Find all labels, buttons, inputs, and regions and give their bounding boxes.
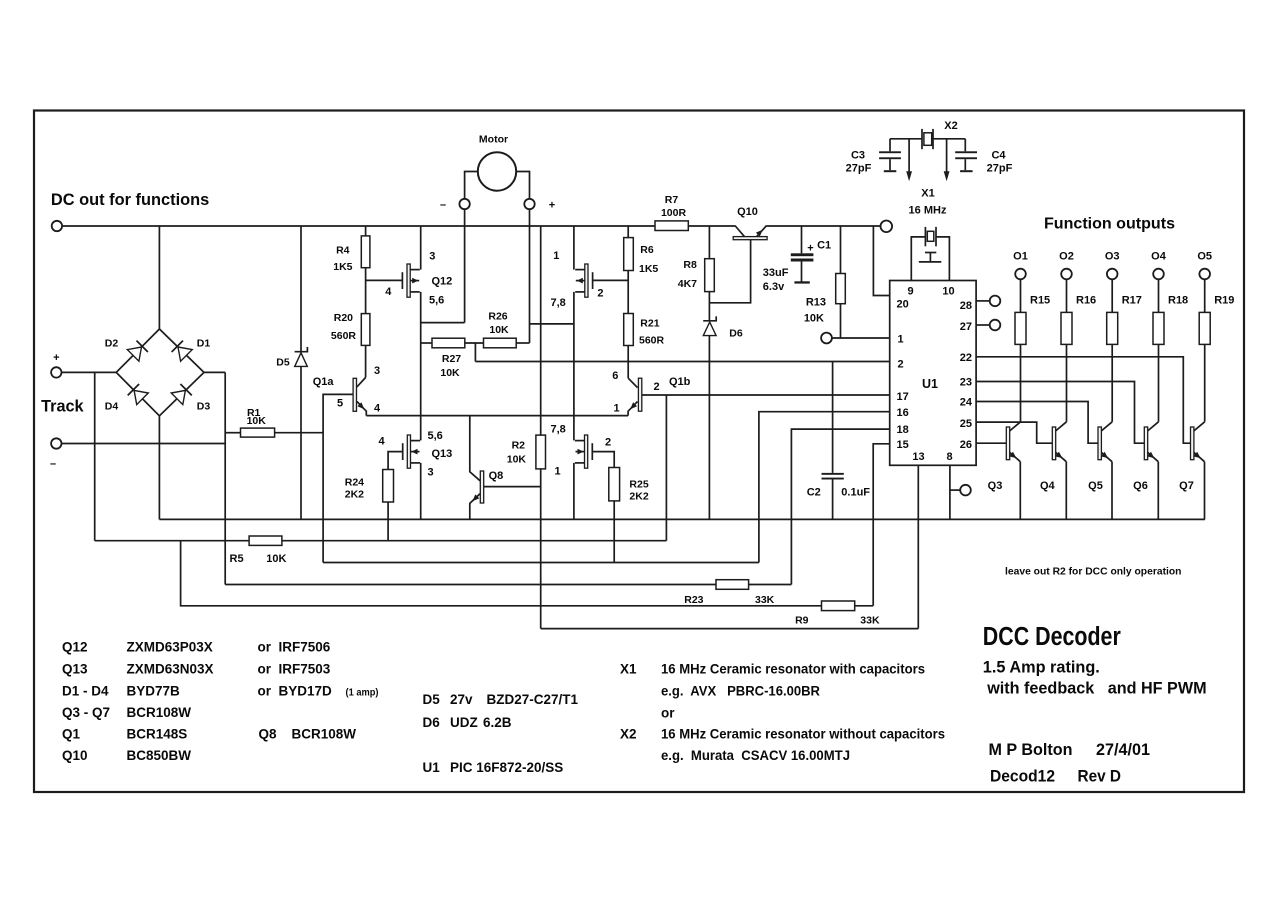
svg-text:10K: 10K bbox=[440, 367, 460, 379]
svg-text:2K2: 2K2 bbox=[345, 489, 364, 501]
wire Q12b drain up bbox=[573, 226, 575, 270]
svg-text:3: 3 bbox=[428, 466, 434, 478]
svg-text:Decod12: Decod12 bbox=[990, 767, 1055, 785]
wire X2 right lead bbox=[933, 138, 965, 140]
wire Q13 gate lead bbox=[388, 452, 403, 470]
svg-text:7,8: 7,8 bbox=[551, 297, 566, 309]
svg-text:22: 22 bbox=[960, 352, 972, 364]
resistor R23 bbox=[716, 580, 749, 590]
svg-text:D5: D5 bbox=[276, 357, 290, 369]
wire bridge top drop bbox=[158, 226, 160, 329]
wire pin1 bbox=[832, 337, 890, 339]
wire pin13 to R2 rail bbox=[541, 628, 919, 630]
svg-text:X2: X2 bbox=[620, 727, 637, 742]
mosfet Q12 bbox=[401, 272, 403, 289]
wire R5 rail left bbox=[95, 540, 249, 542]
wire R4 R20 bbox=[365, 268, 367, 314]
svg-text:16 MHz Ceramic resonator with: 16 MHz Ceramic resonator with capacitors bbox=[661, 662, 925, 677]
svg-text:16 MHz: 16 MHz bbox=[909, 204, 947, 216]
terminal motor minus bbox=[459, 199, 469, 209]
capacitor C4 bbox=[964, 139, 966, 152]
svg-text:Q1a: Q1a bbox=[313, 376, 335, 388]
svg-text:or IRF7503: or IRF7503 bbox=[258, 662, 331, 677]
svg-text:27pF: 27pF bbox=[987, 163, 1013, 175]
terminal pin28 bbox=[990, 296, 1001, 307]
svg-text:R17: R17 bbox=[1122, 294, 1142, 306]
terminal bus right bbox=[881, 221, 893, 233]
wire track plus down bbox=[94, 372, 96, 540]
border frame bbox=[34, 111, 1244, 793]
svg-text:100R: 100R bbox=[661, 207, 687, 219]
wire emitter rail bbox=[366, 415, 628, 417]
wire rail4 right bbox=[749, 584, 792, 586]
wire X2 left lead bbox=[890, 138, 922, 140]
wire track plus bbox=[62, 371, 117, 373]
svg-text:10K: 10K bbox=[804, 312, 824, 324]
svg-text:Q8: Q8 bbox=[259, 727, 278, 742]
wire ground bus bbox=[159, 518, 1205, 520]
svg-text:1K5: 1K5 bbox=[639, 263, 658, 275]
svg-text:23: 23 bbox=[960, 377, 972, 389]
svg-text:R9: R9 bbox=[795, 614, 809, 626]
svg-text:Q10: Q10 bbox=[737, 206, 758, 218]
svg-text:D6: D6 bbox=[423, 715, 441, 730]
svg-text:26: 26 bbox=[960, 439, 972, 451]
wire R27 R26 bbox=[465, 342, 484, 344]
wire bridge right bbox=[204, 371, 225, 373]
transistor Q3 bbox=[1006, 427, 1009, 460]
zener diode D6 bbox=[703, 322, 716, 336]
svg-text:UDZ: UDZ bbox=[450, 715, 478, 730]
wire Q13b source down bbox=[573, 463, 575, 520]
wire R21 bottom bbox=[627, 346, 629, 379]
wire X1 right lead bbox=[936, 237, 949, 281]
svg-text:25: 25 bbox=[960, 418, 972, 430]
terminal pin27 bbox=[990, 320, 1001, 331]
svg-text:Rev D: Rev D bbox=[1078, 767, 1122, 785]
svg-text:6.3v: 6.3v bbox=[763, 281, 785, 293]
wire R8 top bbox=[708, 226, 710, 259]
wire motor minus link bbox=[421, 322, 465, 324]
wire rail4 left bbox=[225, 584, 716, 586]
resistor R1 bbox=[241, 428, 275, 437]
wire Q12 gate lead bbox=[366, 279, 403, 281]
svg-text:BZD27-C27/T1: BZD27-C27/T1 bbox=[487, 692, 579, 707]
wire pin17 tap down bbox=[665, 395, 667, 541]
svg-text:X1: X1 bbox=[620, 662, 637, 677]
resistor R5 bbox=[249, 536, 282, 545]
wire R16 bottom bbox=[1066, 344, 1068, 421]
svg-text:with feedback and HF PWM: with feedback and HF PWM bbox=[986, 680, 1206, 698]
svg-text:1: 1 bbox=[614, 403, 620, 415]
svg-text:BYD77B: BYD77B bbox=[127, 684, 181, 699]
wire Q12b source down bbox=[573, 292, 575, 441]
svg-text:10K: 10K bbox=[507, 453, 527, 465]
svg-text:R23: R23 bbox=[684, 594, 703, 606]
svg-text:BCR148S: BCR148S bbox=[127, 727, 188, 742]
wire Q12b gate lead bbox=[593, 279, 629, 281]
wire pin24 line bbox=[976, 402, 1100, 444]
svg-text:D4: D4 bbox=[105, 401, 119, 413]
svg-text:R20: R20 bbox=[334, 312, 353, 324]
svg-text:5: 5 bbox=[337, 397, 343, 409]
wire Q1b base / pin17 bbox=[642, 394, 890, 396]
svg-text:D3: D3 bbox=[197, 401, 211, 413]
svg-text:2: 2 bbox=[654, 381, 660, 393]
wire Q10 base bbox=[709, 240, 750, 303]
resistor R6 bbox=[624, 238, 634, 271]
resistor R24 bbox=[383, 470, 394, 503]
wire pin18 line bbox=[791, 429, 889, 584]
wire Q1a base column bbox=[323, 394, 353, 562]
wire R18 bottom bbox=[1158, 344, 1160, 421]
svg-text:10: 10 bbox=[942, 286, 954, 298]
svg-text:+: + bbox=[53, 352, 59, 364]
svg-text:13: 13 bbox=[912, 451, 924, 463]
wire X1 left lead bbox=[911, 237, 925, 281]
wire R4 top bbox=[365, 226, 367, 236]
transistor Q1a bbox=[353, 378, 356, 411]
svg-text:BCR108W: BCR108W bbox=[127, 705, 192, 720]
wire R20 bottom bbox=[365, 345, 367, 377]
svg-text:2: 2 bbox=[605, 436, 611, 448]
capacitor C1 bbox=[791, 253, 814, 256]
svg-text:O5: O5 bbox=[1197, 251, 1212, 263]
wire Q12 drain up bbox=[420, 226, 422, 270]
resistor R9 bbox=[822, 601, 855, 611]
svg-text:or IRF7506: or IRF7506 bbox=[258, 640, 331, 655]
wire rail3 bbox=[323, 562, 759, 564]
svg-text:Q13: Q13 bbox=[432, 448, 453, 460]
svg-text:Track: Track bbox=[41, 397, 84, 416]
wire Q12 source down bbox=[420, 292, 422, 441]
wire motor right bbox=[516, 172, 530, 200]
resistor R4 bbox=[361, 236, 370, 268]
resistor R19 bbox=[1204, 279, 1206, 312]
svg-text:R6: R6 bbox=[640, 244, 654, 256]
svg-text:or: or bbox=[661, 706, 675, 721]
wire Q7 emitter bbox=[1204, 462, 1206, 520]
svg-text:1: 1 bbox=[898, 334, 904, 346]
svg-text:C4: C4 bbox=[991, 149, 1006, 161]
svg-text:DCC Decoder: DCC Decoder bbox=[983, 623, 1121, 651]
svg-text:ZXMD63N03X: ZXMD63N03X bbox=[127, 662, 214, 677]
svg-text:Q5: Q5 bbox=[1088, 480, 1103, 492]
svg-text:R26: R26 bbox=[488, 310, 507, 322]
svg-text:20: 20 bbox=[897, 299, 909, 311]
svg-text:27: 27 bbox=[960, 321, 972, 333]
wire Q8 base bbox=[484, 486, 541, 488]
wire pin8 riser bbox=[949, 465, 951, 519]
diode D3 bbox=[171, 390, 185, 404]
svg-text:R2: R2 bbox=[512, 439, 526, 451]
wire pin16 line bbox=[759, 412, 890, 563]
svg-text:M P Bolton: M P Bolton bbox=[989, 741, 1073, 759]
svg-text:BCR108W: BCR108W bbox=[292, 727, 357, 742]
wire R26 right bbox=[516, 342, 529, 344]
transistor Q6 bbox=[1144, 427, 1147, 460]
resistor R26 bbox=[484, 338, 517, 348]
svg-text:R5: R5 bbox=[230, 553, 244, 565]
ic U1 bbox=[890, 281, 976, 466]
wire R1 right bbox=[275, 432, 324, 434]
svg-text:or BYD17D: or BYD17D bbox=[258, 684, 333, 699]
svg-text:560R: 560R bbox=[639, 335, 665, 347]
diode D1 bbox=[178, 347, 192, 361]
svg-text:16 MHz Ceramic resonator witho: 16 MHz Ceramic resonator without capacit… bbox=[661, 727, 945, 742]
wire R25 bottom bbox=[613, 501, 615, 563]
svg-text:C1: C1 bbox=[817, 239, 831, 251]
wire bridge bottom drop bbox=[158, 416, 160, 520]
svg-text:D6: D6 bbox=[729, 327, 743, 339]
svg-text:O2: O2 bbox=[1059, 251, 1074, 263]
svg-text:R19: R19 bbox=[1214, 294, 1234, 306]
wire Q13 source down bbox=[420, 463, 422, 520]
svg-text:R16: R16 bbox=[1076, 294, 1096, 306]
wire C2 top bbox=[832, 362, 834, 473]
svg-text:Q3 - Q7: Q3 - Q7 bbox=[62, 705, 110, 720]
wire track minus column bbox=[224, 372, 226, 584]
capacitor C2 bbox=[822, 473, 844, 475]
svg-text:7,8: 7,8 bbox=[551, 423, 566, 435]
svg-text:5,6: 5,6 bbox=[428, 430, 443, 442]
resistor R27 bbox=[432, 338, 465, 348]
svg-text:R21: R21 bbox=[640, 318, 659, 330]
svg-text:15: 15 bbox=[897, 439, 909, 451]
wire Q4 emitter bbox=[1065, 462, 1067, 520]
wire R13 top bbox=[840, 226, 842, 274]
resistor R21 bbox=[624, 314, 634, 346]
svg-text:2: 2 bbox=[898, 359, 904, 371]
svg-text:6.2B: 6.2B bbox=[483, 715, 512, 730]
svg-text:33K: 33K bbox=[860, 614, 880, 626]
transistor Q8 bbox=[480, 471, 483, 503]
svg-text:10K: 10K bbox=[489, 324, 509, 336]
svg-text:Function outputs: Function outputs bbox=[1044, 216, 1175, 233]
svg-text:U1: U1 bbox=[423, 760, 441, 775]
terminal DC out bbox=[52, 221, 62, 231]
svg-text:Q12: Q12 bbox=[432, 275, 453, 287]
transistor Q4 bbox=[1052, 427, 1055, 460]
resistor R8 bbox=[705, 259, 715, 292]
svg-text:16: 16 bbox=[897, 407, 909, 419]
terminal motor plus bbox=[524, 199, 534, 209]
svg-text:R27: R27 bbox=[442, 353, 461, 365]
diode D2 bbox=[127, 347, 141, 361]
svg-text:9: 9 bbox=[907, 286, 913, 298]
wire R6 top bbox=[627, 226, 629, 238]
svg-text:O4: O4 bbox=[1151, 251, 1167, 263]
wire R2 column bottom bbox=[540, 469, 542, 629]
wire pin28 bbox=[976, 300, 990, 302]
wire track minus bbox=[62, 443, 226, 445]
resonator X2 bbox=[921, 129, 923, 149]
wire pin13 riser bbox=[917, 465, 919, 628]
wire X2 arrow right bbox=[946, 139, 948, 172]
terminal pin1 bbox=[821, 333, 832, 344]
wire motor left bbox=[465, 172, 478, 200]
svg-text:5,6: 5,6 bbox=[429, 294, 444, 306]
zener diode D5 bbox=[295, 353, 308, 367]
svg-text:PIC 16F872-20/SS: PIC 16F872-20/SS bbox=[450, 760, 563, 775]
svg-text:+: + bbox=[807, 243, 813, 255]
svg-text:28: 28 bbox=[960, 300, 972, 312]
svg-text:1.5 Amp rating.: 1.5 Amp rating. bbox=[983, 658, 1100, 676]
svg-text:(1 amp): (1 amp) bbox=[346, 687, 379, 699]
transistor Q7 bbox=[1191, 427, 1194, 460]
wire pin8 terminal lead bbox=[950, 489, 960, 491]
wire pin26 line bbox=[976, 442, 1007, 444]
wire pin25 line bbox=[976, 422, 1053, 443]
svg-text:Q4: Q4 bbox=[1040, 480, 1056, 492]
svg-text:2K2: 2K2 bbox=[629, 491, 648, 503]
wire DC bus 3 bbox=[767, 225, 881, 227]
svg-text:leave out R2 for DCC only oper: leave out R2 for DCC only operation bbox=[1005, 566, 1182, 578]
wire pin2 line bbox=[475, 361, 889, 363]
motor M1 bbox=[478, 152, 516, 190]
capacitor C3 bbox=[889, 139, 891, 152]
svg-text:27pF: 27pF bbox=[846, 163, 872, 175]
wire motor plus link bbox=[530, 323, 574, 325]
wire pin20 riser bbox=[873, 226, 889, 295]
svg-text:Q6: Q6 bbox=[1133, 480, 1148, 492]
wire C2 bottom bbox=[832, 480, 834, 520]
transistor Q10 bbox=[733, 237, 767, 240]
svg-text:+: + bbox=[549, 200, 555, 212]
wire R5 rail right bbox=[282, 540, 667, 542]
svg-text:R7: R7 bbox=[665, 194, 679, 206]
svg-text:24: 24 bbox=[960, 397, 973, 409]
wire Q5 emitter bbox=[1111, 462, 1113, 520]
svg-text:Q8: Q8 bbox=[489, 470, 504, 482]
resistor R20 bbox=[361, 314, 370, 346]
resistor R2 bbox=[536, 435, 546, 469]
svg-text:C3: C3 bbox=[851, 149, 865, 161]
svg-text:R18: R18 bbox=[1168, 294, 1188, 306]
wire D5 column bbox=[300, 226, 302, 352]
transistor Q1b bbox=[638, 378, 641, 411]
svg-text:1: 1 bbox=[555, 465, 561, 477]
diode D4 bbox=[134, 390, 148, 404]
svg-text:D5: D5 bbox=[423, 692, 441, 707]
svg-text:6: 6 bbox=[612, 370, 618, 382]
wire motor minus drop bbox=[464, 209, 466, 322]
svg-text:–: – bbox=[440, 199, 446, 211]
svg-text:Motor: Motor bbox=[479, 134, 508, 146]
svg-text:10K: 10K bbox=[247, 415, 267, 427]
wire pin15 line bbox=[873, 444, 890, 606]
svg-text:2: 2 bbox=[597, 287, 603, 299]
wire rail5 left bbox=[181, 541, 822, 606]
svg-text:D2: D2 bbox=[105, 338, 119, 350]
wire DC bus 2 bbox=[688, 225, 735, 227]
svg-text:Q7: Q7 bbox=[1179, 480, 1194, 492]
svg-text:4: 4 bbox=[374, 403, 381, 415]
svg-text:Q12: Q12 bbox=[62, 640, 88, 655]
svg-text:1: 1 bbox=[553, 250, 559, 262]
svg-text:ZXMD63P03X: ZXMD63P03X bbox=[127, 640, 213, 655]
wire pin27 bbox=[976, 324, 990, 326]
terminal track plus bbox=[51, 367, 61, 377]
wire C1 top bbox=[801, 226, 803, 253]
svg-text:0.1uF: 0.1uF bbox=[841, 486, 870, 498]
svg-text:–: – bbox=[50, 458, 56, 470]
svg-text:27v: 27v bbox=[450, 692, 473, 707]
svg-text:U1: U1 bbox=[922, 377, 938, 391]
svg-text:X2: X2 bbox=[944, 120, 957, 132]
wire R1 left bbox=[225, 432, 240, 434]
wire DC bus bbox=[62, 225, 655, 227]
wire pin2 tap bbox=[474, 343, 476, 362]
transistor Q5 bbox=[1098, 427, 1101, 460]
svg-text:R24: R24 bbox=[345, 477, 364, 489]
svg-text:3: 3 bbox=[374, 365, 380, 377]
wire pin22 line bbox=[976, 357, 1191, 443]
svg-text:Q1: Q1 bbox=[62, 727, 81, 742]
svg-text:D1 - D4: D1 - D4 bbox=[62, 684, 109, 699]
wire R15 bottom bbox=[1020, 344, 1022, 421]
wire rail5 right bbox=[855, 605, 874, 607]
wire Q13b gate lead bbox=[592, 452, 614, 468]
svg-text:10K: 10K bbox=[266, 553, 286, 565]
wire motor plus drop bbox=[529, 209, 531, 343]
wire D6 bottom bbox=[708, 336, 710, 520]
svg-text:R25: R25 bbox=[629, 479, 648, 491]
resistor R13 bbox=[836, 274, 846, 304]
svg-text:O3: O3 bbox=[1105, 251, 1120, 263]
svg-text:R15: R15 bbox=[1030, 294, 1050, 306]
svg-text:e.g. AVX PBRC-16.00BR: e.g. AVX PBRC-16.00BR bbox=[661, 684, 820, 699]
wire Q3 emitter bbox=[1019, 462, 1021, 520]
wire R13 bottom bbox=[840, 304, 842, 338]
wire R17 bottom bbox=[1111, 344, 1113, 421]
svg-text:4: 4 bbox=[378, 436, 385, 448]
svg-text:Q13: Q13 bbox=[62, 662, 88, 677]
svg-text:1K5: 1K5 bbox=[333, 261, 352, 273]
resistor R17 bbox=[1111, 279, 1113, 312]
wire Q6 emitter bbox=[1157, 462, 1159, 520]
svg-text:BC850BW: BC850BW bbox=[127, 748, 192, 763]
svg-text:4: 4 bbox=[385, 286, 392, 298]
mosfet Q12b bbox=[592, 272, 594, 289]
svg-text:Q3: Q3 bbox=[988, 480, 1003, 492]
svg-text:Q10: Q10 bbox=[62, 748, 88, 763]
resistor R15 bbox=[1020, 279, 1022, 312]
wire R8 bottom bbox=[708, 292, 710, 321]
mosfet Q13b bbox=[591, 443, 593, 460]
terminal pin8 bbox=[960, 485, 971, 496]
svg-text:560R: 560R bbox=[331, 330, 357, 342]
terminal track minus bbox=[51, 438, 61, 448]
resistor R7 bbox=[655, 221, 688, 231]
resistor R25 bbox=[609, 468, 620, 501]
svg-text:X1: X1 bbox=[921, 188, 934, 200]
resonator X1 bbox=[924, 227, 926, 246]
svg-text:C2: C2 bbox=[807, 486, 821, 498]
svg-text:R4: R4 bbox=[336, 244, 350, 256]
svg-text:R8: R8 bbox=[683, 259, 697, 271]
svg-text:Q1b: Q1b bbox=[669, 376, 691, 388]
svg-text:18: 18 bbox=[897, 424, 909, 436]
svg-text:17: 17 bbox=[897, 391, 909, 403]
wire R2 column top bbox=[540, 226, 542, 435]
svg-text:3: 3 bbox=[429, 250, 435, 262]
resistor R16 bbox=[1066, 279, 1068, 312]
bridge diamond bbox=[116, 329, 204, 416]
svg-text:R13: R13 bbox=[806, 296, 826, 308]
wire X2 arrow left bbox=[908, 139, 910, 172]
wire pin23 line bbox=[976, 382, 1145, 444]
